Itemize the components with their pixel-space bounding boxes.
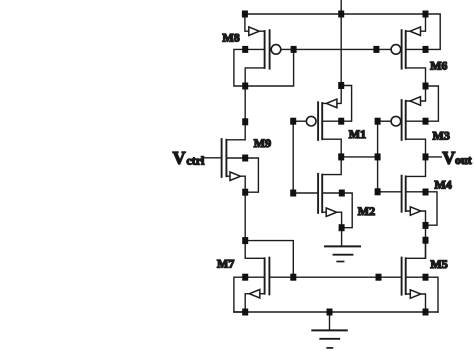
wire node link M1/M2 drains to M3/M4 gates: [341, 156, 377, 158]
wire mirror gate line M7-M5: [269, 276, 401, 278]
wire M5 source: [406, 294, 426, 312]
wire mirror gate line M8-M6: [282, 48, 391, 50]
wire M8 drain: [245, 68, 264, 86]
node M4 source: [423, 222, 429, 229]
wire M9 source: [226, 176, 245, 192]
wire M5 body tie loop: [406, 277, 438, 312]
node rail ground tap: [327, 309, 333, 316]
transistor M8 (PMOS, diode-connected): [265, 30, 281, 68]
ground symbol main (bottom center): [312, 312, 347, 348]
transistor M3 (PMOS): [391, 100, 406, 140]
wire M3-M4 gate line: [377, 121, 379, 192]
svg-text:M8: M8: [222, 30, 239, 44]
wire M4 drain from Vout node: [406, 157, 426, 177]
node M1 source: [338, 82, 344, 89]
wire M8 gate diode loop: [245, 49, 293, 86]
node mid gate tie: [375, 153, 381, 160]
transistor M2 (NMOS): [318, 174, 322, 213]
node rail M7 source: [242, 309, 248, 316]
wire M1 gate lead: [293, 120, 305, 122]
transistor M6 (PMOS): [391, 30, 406, 68]
wire Vout lead: [426, 156, 442, 158]
arrow M4 source: [410, 207, 421, 216]
arrow M7 source: [249, 290, 259, 299]
wire M1 drain: [322, 139, 341, 157]
svg-text:V: V: [173, 148, 186, 168]
wire M9 source down to mirror node: [244, 192, 246, 240]
wire M3 gate lead: [378, 120, 391, 122]
arrow M9 source (NMOS, tip away from channel): [230, 172, 241, 181]
svg-text:M1: M1: [349, 127, 366, 141]
arrow M5 source: [410, 290, 421, 299]
svg-text:out: out: [455, 153, 472, 167]
wire M9 drain to M8 drain: [226, 86, 245, 140]
wire M8 body tie loop: [234, 49, 265, 86]
wire M8 source from rail: [245, 14, 265, 31]
arrow M3 source: [410, 97, 421, 106]
wire M1 source from VDD feed: [322, 86, 341, 104]
wire VDD feed stub (top center, down to M1 source): [340, 0, 342, 86]
wire M2 source: [322, 212, 341, 228]
node rail left / M8 source: [242, 11, 248, 18]
wire M3 drain to Vout node: [406, 139, 426, 157]
node mirror line right: [376, 274, 382, 281]
node rail M5 source: [423, 309, 429, 316]
node M1/M2 drains: [338, 153, 344, 160]
transistor M1 (PMOS): [306, 102, 322, 140]
node M5 body: [423, 274, 429, 281]
node M8 gate loop top: [291, 46, 297, 53]
svg-text:M2: M2: [358, 204, 375, 218]
wire M3 body tie loop: [406, 86, 439, 121]
wire M7 drain: [245, 241, 264, 259]
wire M2 drain: [322, 157, 341, 175]
transistor M4 (NMOS): [402, 176, 406, 212]
svg-text:M3: M3: [433, 129, 450, 143]
node M6 gate: [373, 46, 379, 53]
svg-text:M4: M4: [434, 177, 451, 191]
wire M3 source from M6 drain: [406, 86, 426, 101]
node M3 body: [423, 118, 429, 125]
wire M2 source to ground stub: [341, 228, 343, 247]
node M2 body: [339, 190, 345, 197]
wire M2 body tie loop: [322, 193, 352, 228]
wire M7 source: [245, 294, 264, 312]
svg-text:M7: M7: [217, 257, 234, 271]
node M2 gate: [290, 190, 296, 197]
svg-text:M6: M6: [430, 59, 447, 73]
arrow M2 source: [326, 208, 337, 217]
wire M4 source to M5 drain: [425, 225, 427, 258]
svg-text:M5: M5: [430, 257, 447, 271]
node M1 gate corner: [290, 118, 296, 125]
node M3 gate corner: [375, 118, 381, 125]
node M4/M5 tie: [423, 237, 429, 244]
svg-text:ctrl: ctrl: [186, 153, 205, 167]
wire M7 body tie loop: [234, 277, 265, 312]
node rail center / VDD feed: [338, 11, 344, 18]
wire M6 body tie to rail: [406, 14, 441, 49]
node Vout: [423, 153, 429, 160]
node M1 body: [338, 118, 344, 125]
wire M6 drain: [406, 68, 426, 86]
transistor M9 (NMOS): [222, 139, 227, 177]
wire M1-M2 gate line: [292, 121, 294, 193]
node mirror line left: [290, 274, 296, 281]
node M9 source: [242, 189, 248, 196]
node M9 body: [242, 155, 248, 162]
arrow M1 source: [326, 99, 337, 108]
svg-text:V: V: [442, 148, 455, 168]
wire bottom ground rail: [234, 311, 438, 313]
svg-text:M9: M9: [254, 136, 271, 150]
node M8 drain: [242, 83, 248, 90]
wire M9 source to bottom mirror link: [245, 241, 293, 278]
arrow M8 source (PMOS, tip toward channel): [249, 27, 259, 36]
ground symbol under M2: [325, 246, 360, 261]
wire M2 gate lead: [293, 192, 318, 194]
node rail right / M6 source: [423, 11, 429, 18]
node M2 source: [339, 224, 345, 231]
wire Vctrl lead to M9 gate: [205, 157, 222, 159]
arrow M6 source: [410, 27, 421, 36]
wire M6 source from rail: [406, 14, 426, 31]
wire M5 drain: [406, 240, 426, 258]
transistor M7 (NMOS, diode-connected): [265, 258, 270, 295]
node M8/M9 drain link: [242, 118, 248, 125]
node M7 body: [242, 274, 248, 281]
wire VDD top rail: [245, 13, 426, 15]
wire M9 body tie loop: [226, 158, 258, 192]
node M8 body: [242, 46, 248, 53]
node M4 body: [423, 189, 429, 196]
node M4 gate: [375, 188, 381, 195]
wire M1 body tie loop: [322, 86, 351, 122]
wire M4 body tie loop: [406, 192, 437, 225]
node M9/M7 drain tie: [242, 237, 248, 244]
node M6 body: [423, 46, 429, 53]
node M6 drain / M3 source: [423, 83, 429, 90]
transistor M5 (NMOS): [402, 258, 406, 295]
wire M4 source: [406, 211, 426, 225]
wire M4 gate lead: [378, 191, 402, 193]
